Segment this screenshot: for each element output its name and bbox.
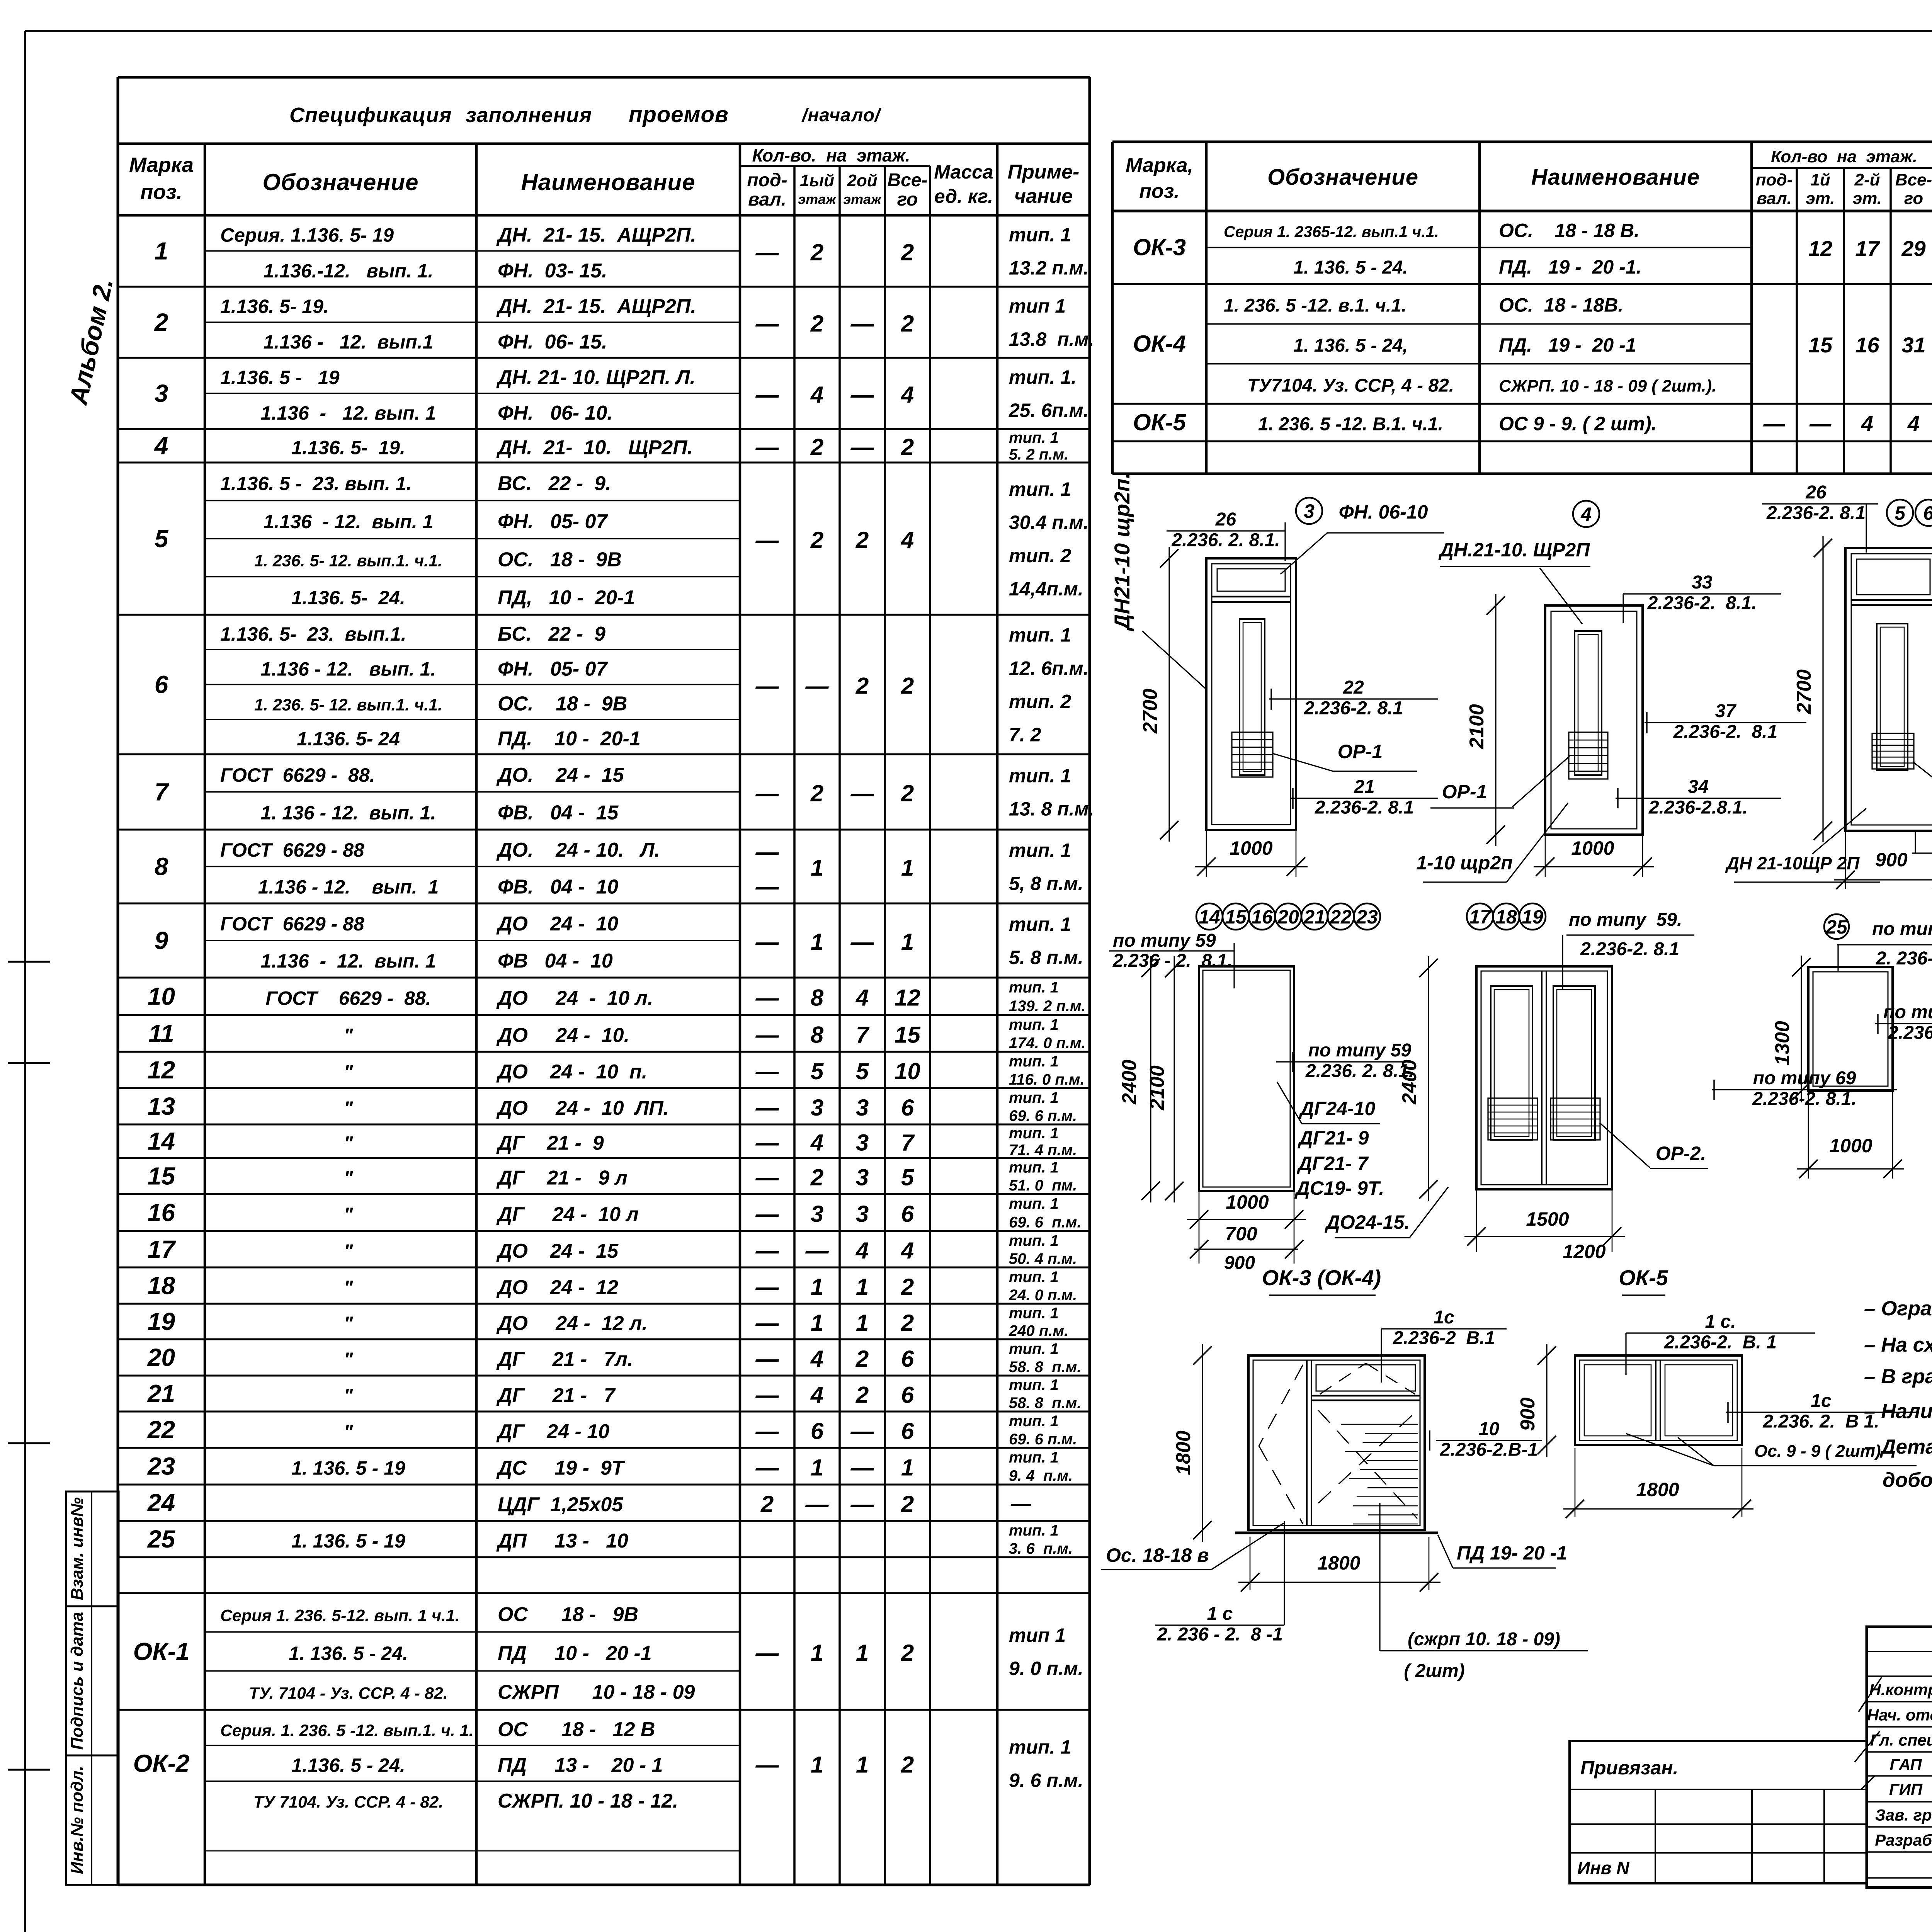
svg-text:ДО 24 - 15: ДО 24 - 15	[496, 1240, 619, 1262]
svg-text:доборного бруса.: доборного бруса.	[1883, 1469, 1932, 1492]
svg-text:1. 236. 5 -12. В.1. ч.1.: 1. 236. 5 -12. В.1. ч.1.	[1258, 414, 1443, 435]
svg-text:1: 1	[811, 1274, 823, 1300]
svg-text:ОС. 18 - 18В.: ОС. 18 - 18В.	[1499, 294, 1623, 316]
svg-text:12: 12	[895, 985, 920, 1011]
label 22 door3	[1269, 698, 1438, 699]
svg-text:4: 4	[154, 432, 168, 460]
svg-text:—: —	[755, 1346, 779, 1372]
dim 1000 w25	[1808, 1091, 1809, 1179]
svg-text:—: —	[755, 839, 779, 865]
svg-text:Зав. гр.: Зав. гр.	[1875, 1806, 1932, 1824]
label po tipu 59 w25	[1875, 1023, 1932, 1024]
svg-text:– Ограждающая решетка для осте: – Ограждающая решетка для остекленных дв…	[1864, 1297, 1932, 1320]
svg-text:—: —	[850, 781, 874, 806]
svg-text:—: —	[805, 673, 829, 699]
svg-text:тип. 1: тип. 1	[1009, 1125, 1059, 1142]
svg-text:ГОСТ 6629 - 88.: ГОСТ 6629 - 88.	[220, 764, 375, 786]
svg-text:тип. 1: тип. 1	[1009, 1736, 1071, 1758]
svg-text:—: —	[850, 434, 874, 460]
label 1s top ok5	[1626, 1332, 1815, 1333]
svg-text:ГИП: ГИП	[1889, 1781, 1923, 1799]
svg-text:1 с.: 1 с.	[1705, 1311, 1736, 1332]
svg-text:1.136 - 12. вып. 1.: 1.136 - 12. вып. 1.	[261, 658, 436, 680]
svg-text:26: 26	[1805, 482, 1827, 503]
svg-text:1.136. 5- 19.: 1.136. 5- 19.	[220, 296, 329, 317]
svg-text:—: —	[755, 1238, 779, 1264]
transom dashes ok3	[1320, 1363, 1366, 1394]
svg-text:по типу 69: по типу 69	[1753, 1068, 1856, 1088]
svg-text:11: 11	[148, 1020, 174, 1048]
svg-text:6: 6	[901, 1095, 914, 1121]
svg-text:6: 6	[155, 671, 168, 699]
dim 1800 h ok3	[1250, 1537, 1251, 1590]
svg-text:—: —	[755, 240, 779, 265]
svg-text:9: 9	[155, 927, 168, 954]
svg-text:ДГ 21 - 7: ДГ 21 - 7	[496, 1384, 616, 1407]
svg-text:1.136 - 12. вып. 1: 1.136 - 12. вып. 1	[261, 950, 436, 972]
svg-text:– Деталь по типу 59. в внутрен: – Деталь по типу 59. в внутренних стенах…	[1864, 1435, 1932, 1458]
svg-text:ДО 24 - 10 л.: ДО 24 - 10 л.	[496, 987, 653, 1010]
svg-text:—: —	[805, 1491, 829, 1517]
svg-text:по типу 59: по типу 59	[1113, 930, 1216, 951]
svg-text:7. 2: 7. 2	[1009, 724, 1041, 746]
door type 4 elevation	[1545, 605, 1643, 835]
svg-text:1: 1	[901, 855, 914, 881]
svg-text:9. 4 п.м.: 9. 4 п.м.	[1009, 1468, 1073, 1485]
svg-text:8: 8	[811, 1022, 824, 1048]
svg-text:21: 21	[1354, 777, 1374, 797]
svg-text:ДГ21- 7: ДГ21- 7	[1297, 1153, 1369, 1174]
svg-text:2.236-2.В-1: 2.236-2.В-1	[1440, 1439, 1538, 1460]
svg-text:2.236-2.8.1.: 2.236-2.8.1.	[1648, 797, 1748, 818]
svg-text:1000: 1000	[1226, 1191, 1269, 1213]
label 34	[1616, 798, 1781, 799]
svg-text:21: 21	[147, 1380, 175, 1408]
svg-text:2: 2	[810, 527, 823, 553]
svg-text:—: —	[755, 1274, 779, 1300]
svg-text:этаж: этаж	[843, 191, 882, 207]
svg-text:ОС. 18 - 9В: ОС. 18 - 9В	[498, 693, 627, 715]
svg-text:5: 5	[901, 1165, 915, 1190]
svg-text:тип 1: тип 1	[1009, 1624, 1066, 1646]
svg-text:– На схемах заполнения проемов: – На схемах заполнения проемов даны разм…	[1864, 1333, 1932, 1356]
svg-text:ДО. 24 - 10. Л.: ДО. 24 - 10. Л.	[496, 839, 660, 861]
svg-text:ТУ 7104. Уз. ССР. 4 - 82.: ТУ 7104. Уз. ССР. 4 - 82.	[253, 1793, 443, 1811]
svg-text:1с: 1с	[1811, 1391, 1831, 1411]
svg-text:тип. 1: тип. 1	[1009, 1377, 1059, 1394]
svg-text:ОК-3 (ОК-4): ОК-3 (ОК-4)	[1262, 1265, 1381, 1290]
svg-text:3: 3	[155, 379, 168, 407]
svg-text:СЖРП. 10 - 18 - 12.: СЖРП. 10 - 18 - 12.	[498, 1790, 678, 1812]
svg-text:1. 136. 5 - 24,: 1. 136. 5 - 24,	[1293, 335, 1408, 356]
svg-text:2: 2	[855, 673, 869, 699]
svg-text:Обозначение: Обозначение	[1267, 165, 1418, 190]
svg-text:ФН. 06- 15.: ФН. 06- 15.	[498, 331, 607, 353]
window 25 elevation	[1808, 967, 1893, 1091]
svg-text:3: 3	[856, 1165, 869, 1190]
svg-text:—: —	[755, 1310, 779, 1336]
svg-text:1000: 1000	[1571, 837, 1614, 859]
dim 1800 v ok3	[1202, 1344, 1203, 1542]
svg-text:2.236-2. 8.1: 2.236-2. 8.1	[1304, 698, 1403, 718]
svg-text:—: —	[1010, 1493, 1031, 1515]
svg-text:—: —	[755, 781, 779, 806]
svg-text:5. 2 п.м.: 5. 2 п.м.	[1009, 446, 1068, 463]
svg-text:ФВ. 04 - 10: ФВ. 04 - 10	[498, 876, 618, 898]
svg-text:22: 22	[147, 1416, 175, 1444]
svg-text:1.136. 5- 19.: 1.136. 5- 19.	[291, 437, 405, 459]
svg-text:2.236-2. 8.1: 2.236-2. 8.1	[1315, 797, 1414, 818]
svg-text:тип. 1: тип. 1	[1009, 913, 1071, 935]
svg-text:тип. 2: тип. 2	[1009, 545, 1071, 566]
svg-text:– В графе примечания даны общи: – В графе примечания даны общие расходы …	[1864, 1365, 1932, 1388]
svg-text:24. 0 п.м.: 24. 0 п.м.	[1009, 1287, 1077, 1304]
svg-text:8: 8	[155, 853, 168, 881]
svg-text:тип. 1: тип. 1	[1009, 1089, 1059, 1106]
svg-text:тип. 1: тип. 1	[1009, 478, 1071, 500]
svg-text:тип. 1: тип. 1	[1009, 429, 1059, 446]
svg-text:2: 2	[855, 1382, 869, 1408]
svg-text:ПД 13 - 20 - 1: ПД 13 - 20 - 1	[498, 1754, 663, 1777]
svg-text:тип. 1: тип. 1	[1009, 1159, 1059, 1176]
blank door 14-23 elevation	[1199, 966, 1294, 1191]
svg-text:1800: 1800	[1636, 1479, 1679, 1500]
svg-text:1.136 - 12. вып. 1: 1.136 - 12. вып. 1	[258, 876, 439, 898]
svg-text:1 с: 1 с	[1207, 1604, 1233, 1624]
svg-text:—: —	[755, 311, 779, 337]
svg-text:ДО 24 - 10 п.: ДО 24 - 10 п.	[496, 1061, 647, 1083]
svg-text:по типу 59: по типу 59	[1308, 1040, 1412, 1061]
svg-text:Н.контр.: Н.контр.	[1869, 1680, 1932, 1699]
svg-text:13. 8 п.м.: 13. 8 п.м.	[1009, 798, 1094, 820]
dim 2700 door 3	[1168, 547, 1170, 842]
svg-text:116. 0 п.м.: 116. 0 п.м.	[1009, 1071, 1085, 1088]
svg-text:2.236. 2. 8.1.: 2.236. 2. 8.1.	[1305, 1061, 1414, 1081]
left panel dashes ok3	[1259, 1365, 1303, 1446]
svg-text:19: 19	[148, 1308, 175, 1335]
svg-text:2100: 2100	[1146, 1065, 1168, 1111]
svg-text:4: 4	[810, 1346, 823, 1372]
dim 2100 door 4	[1495, 594, 1496, 846]
dims 1000 700 900 d14	[1199, 1191, 1200, 1264]
svg-text:тип. 1: тип. 1	[1009, 765, 1071, 787]
svg-text:29: 29	[1901, 236, 1925, 261]
svg-text:ОК-4: ОК-4	[1133, 331, 1186, 357]
svg-text:1: 1	[856, 1640, 869, 1666]
svg-text:тип. 1: тип. 1	[1009, 624, 1071, 646]
svg-text:1800: 1800	[1317, 1552, 1360, 1574]
svg-text:—: —	[755, 1058, 779, 1084]
svg-text:2: 2	[901, 1752, 914, 1778]
svg-text:—: —	[755, 382, 779, 408]
svg-text:22: 22	[1343, 677, 1364, 698]
svg-text:8: 8	[811, 985, 824, 1011]
slash strokes on staff	[1859, 1677, 1882, 1712]
svg-text:—: —	[850, 382, 874, 408]
svg-text:4: 4	[901, 1238, 914, 1264]
svg-text:ДН21-10 щр2п.: ДН21-10 щр2п.	[1110, 473, 1134, 631]
svg-text:ЦДГ 1,25х05: ЦДГ 1,25х05	[498, 1493, 623, 1516]
svg-text:заполнения: заполнения	[466, 104, 592, 127]
label 33	[1623, 593, 1781, 594]
marks 14-23	[1196, 903, 1223, 930]
svg-text:ДН.21-10. ЩР2П: ДН.21-10. ЩР2П	[1438, 539, 1590, 561]
svg-text:2. 236 - 2. 8 -1: 2. 236 - 2. 8 -1	[1156, 1624, 1283, 1645]
svg-text:7: 7	[155, 778, 170, 806]
svg-text:1: 1	[811, 1455, 823, 1481]
title block attachment box	[1570, 1741, 1867, 1883]
label 37	[1645, 722, 1806, 723]
svg-text:71. 4 п.м.: 71. 4 п.м.	[1009, 1142, 1077, 1159]
svg-text:ДН. 21- 15. АЩР2П.: ДН. 21- 15. АЩР2П.	[496, 224, 696, 246]
door 5-6 glazing	[1877, 624, 1908, 770]
svg-text:5: 5	[811, 1058, 824, 1084]
svg-text:1: 1	[811, 929, 823, 955]
fold marks	[8, 961, 50, 963]
svg-text:Обозначение: Обозначение	[262, 169, 418, 195]
door 3 glazing	[1240, 619, 1265, 775]
svg-text:ДН. 21- 10. ЩР2П.: ДН. 21- 10. ЩР2П.	[496, 437, 693, 459]
marks 5 6	[1887, 500, 1913, 526]
svg-text:1. 136. 5 - 24.: 1. 136. 5 - 24.	[1293, 257, 1408, 278]
svg-text:2400: 2400	[1398, 1060, 1421, 1105]
svg-text:ДО 24 - 10: ДО 24 - 10	[496, 913, 618, 935]
svg-text:4: 4	[855, 985, 869, 1011]
svg-text:1.136.-12. вып. 1.: 1.136.-12. вып. 1.	[264, 260, 434, 282]
svg-text:1. 136. 5 - 24.: 1. 136. 5 - 24.	[289, 1643, 408, 1664]
svg-text:2: 2	[901, 673, 914, 699]
svg-text:3: 3	[856, 1130, 869, 1156]
svg-text:4: 4	[901, 527, 914, 553]
svg-text:ФН. 06- 10.: ФН. 06- 10.	[498, 402, 613, 424]
svg-text:1.136 - 12. вып. 1: 1.136 - 12. вып. 1	[261, 402, 436, 424]
svg-text:по типу 59: по типу 59	[1883, 1002, 1932, 1022]
label 1s right ok5	[1726, 1412, 1917, 1413]
label szhrp ok3	[1379, 1503, 1380, 1651]
svg-text:15: 15	[895, 1022, 921, 1048]
svg-text:2: 2	[810, 1165, 823, 1190]
svg-text:2: 2	[810, 434, 823, 460]
svg-text:69. 6 п.м.: 69. 6 п.м.	[1009, 1107, 1077, 1124]
dim 1500 1200 d17	[1476, 1189, 1477, 1252]
svg-text:26: 26	[1215, 509, 1236, 530]
svg-text:2.236-2. 8.1: 2.236-2. 8.1	[1673, 721, 1778, 742]
svg-text:( 2шт): ( 2шт)	[1404, 1661, 1464, 1681]
svg-text:2: 2	[810, 240, 823, 265]
dim 1300 w25	[1801, 956, 1802, 1102]
svg-text:2: 2	[901, 1274, 914, 1300]
svg-text:Ос. 18-18 в: Ос. 18-18 в	[1106, 1544, 1209, 1566]
svg-text:18: 18	[1495, 906, 1517, 928]
label po tipu 59 right d14	[1276, 1061, 1409, 1062]
grille OP-1 door3	[1232, 732, 1273, 777]
svg-text:ДГ24-10: ДГ24-10	[1299, 1098, 1376, 1119]
svg-text:тип 1: тип 1	[1009, 295, 1066, 317]
svg-text:Альбом 2.: Альбом 2.	[63, 276, 118, 407]
marks 17 18 19	[1467, 903, 1493, 930]
svg-text:под-: под-	[1756, 170, 1793, 189]
svg-text:": "	[344, 1277, 354, 1298]
mark 3	[1296, 498, 1322, 524]
svg-text:поз.: поз.	[140, 180, 182, 204]
svg-text:9. 6 п.м.: 9. 6 п.м.	[1009, 1770, 1083, 1791]
svg-text:ДО 24 - 10.: ДО 24 - 10.	[496, 1024, 629, 1047]
svg-text:4: 4	[1580, 503, 1592, 525]
svg-text:тип. 1: тип. 1	[1009, 224, 1071, 246]
svg-text:Спецификация: Спецификация	[289, 104, 452, 127]
svg-text:4: 4	[901, 382, 914, 408]
svg-text:2.236. 2. 8.1.: 2.236. 2. 8.1.	[1171, 530, 1280, 550]
svg-text:1: 1	[856, 1310, 869, 1336]
label po tipu 69	[1712, 1089, 1897, 1090]
svg-text:2.236 - 2. 8.1.: 2.236 - 2. 8.1.	[1112, 951, 1233, 971]
svg-text:—: —	[755, 1022, 779, 1048]
svg-text:ФН. 05- 07: ФН. 05- 07	[498, 658, 608, 680]
svg-text:10: 10	[895, 1058, 920, 1084]
svg-text:ГОСТ 6629 - 88: ГОСТ 6629 - 88	[220, 839, 364, 861]
label 21 door5-6	[1912, 852, 1932, 854]
svg-text:6: 6	[901, 1382, 914, 1408]
dim 900 door5-6	[1845, 831, 1846, 889]
svg-text:5: 5	[155, 525, 169, 553]
svg-text:17: 17	[1855, 236, 1880, 261]
svg-text:ДО 24 - 12: ДО 24 - 12	[496, 1276, 618, 1299]
svg-text:ОС. 18 - 9В: ОС. 18 - 9В	[498, 548, 622, 571]
svg-text:1.136. 5 - 23. вып. 1.: 1.136. 5 - 23. вып. 1.	[220, 473, 412, 494]
svg-text:2: 2	[901, 434, 914, 460]
svg-text:—: —	[850, 1491, 874, 1517]
svg-text:": "	[344, 1240, 354, 1262]
svg-text:—: —	[755, 1201, 779, 1227]
svg-text:2: 2	[901, 1491, 914, 1517]
dim 1800 ok5	[1575, 1448, 1576, 1517]
svg-text:1.136. 5 - 19: 1.136. 5 - 19	[220, 367, 340, 388]
svg-text:174. 0 п.м.: 174. 0 п.м.	[1009, 1035, 1086, 1052]
svg-text:14: 14	[1199, 906, 1220, 928]
svg-text:1200: 1200	[1563, 1241, 1605, 1262]
svg-text:—: —	[755, 434, 779, 460]
svg-text:—: —	[755, 673, 779, 699]
svg-text:ДГ 21 - 9: ДГ 21 - 9	[496, 1132, 604, 1155]
svg-text:(сжрп 10. 18 - 09): (сжрп 10. 18 - 09)	[1408, 1629, 1560, 1650]
svg-text:23: 23	[1356, 906, 1378, 928]
svg-text:1. 236. 5 -12. в.1. ч.1.: 1. 236. 5 -12. в.1. ч.1.	[1224, 296, 1406, 316]
svg-text:ПД, 10 - 20-1: ПД, 10 - 20-1	[498, 587, 635, 609]
svg-text:4: 4	[1861, 412, 1873, 436]
svg-text:ФН. 03- 15.: ФН. 03- 15.	[498, 260, 607, 282]
svg-text:3. 6 п.м.: 3. 6 п.м.	[1009, 1540, 1073, 1557]
svg-text:Марка: Марка	[129, 153, 194, 177]
svg-text:ПД. 19 - 20 -1.: ПД. 19 - 20 -1.	[1499, 256, 1641, 278]
dim 2400 d17	[1428, 956, 1429, 1201]
svg-text:эт.: эт.	[1853, 189, 1882, 208]
svg-text:ДП 13 - 10: ДП 13 - 10	[496, 1530, 628, 1552]
svg-text:2.236. 2. В 1.: 2.236. 2. В 1.	[1762, 1411, 1879, 1432]
svg-text:16: 16	[1855, 333, 1879, 357]
svg-text:2: 2	[810, 781, 823, 806]
svg-text:1: 1	[811, 1752, 823, 1778]
svg-text:тип. 1: тип. 1	[1009, 1195, 1059, 1212]
svg-text:Гл. спец.: Гл. спец.	[1870, 1731, 1932, 1749]
svg-text:10: 10	[1479, 1419, 1500, 1439]
svg-text:—: —	[1763, 412, 1786, 436]
svg-text:240 п.м.: 240 п.м.	[1009, 1322, 1068, 1339]
window OK-3 elevation	[1248, 1355, 1425, 1530]
svg-text:ДГ 24 - 10: ДГ 24 - 10	[496, 1420, 609, 1443]
svg-text:1ый: 1ый	[800, 171, 834, 190]
svg-text:69. 6 п.м.: 69. 6 п.м.	[1009, 1431, 1077, 1448]
svg-text:Марка,: Марка,	[1126, 154, 1193, 177]
svg-text:ДГ 21 - 7л.: ДГ 21 - 7л.	[496, 1348, 633, 1371]
svg-text:—: —	[850, 311, 874, 337]
svg-text:4: 4	[810, 382, 823, 408]
svg-text:/начало/: /начало/	[801, 105, 882, 126]
svg-text:вал.: вал.	[1757, 189, 1792, 208]
svg-text:24: 24	[147, 1489, 175, 1517]
svg-text:1.136 - 12. вып. 1: 1.136 - 12. вып. 1	[264, 511, 434, 532]
svg-text:Нач. отд.: Нач. отд.	[1867, 1706, 1932, 1724]
svg-text:—: —	[755, 1418, 779, 1444]
svg-text:Приме-: Приме-	[1008, 161, 1080, 183]
svg-text:2700: 2700	[1139, 689, 1162, 734]
svg-text:тип. 1: тип. 1	[1009, 1269, 1059, 1286]
svg-text:": "	[344, 1313, 354, 1334]
svg-text:13: 13	[148, 1092, 175, 1120]
grille OP-1 door5-6	[1872, 733, 1914, 769]
svg-text:3: 3	[856, 1201, 869, 1227]
svg-text:20: 20	[147, 1344, 175, 1371]
svg-text:1.136. 5 - 24.: 1.136. 5 - 24.	[291, 1755, 405, 1776]
svg-text:12. 6п.м.: 12. 6п.м.	[1009, 658, 1089, 679]
svg-text:Серия 1. 236. 5-12. вып. 1 ч.1: Серия 1. 236. 5-12. вып. 1 ч.1.	[220, 1606, 460, 1625]
svg-text:": "	[344, 1204, 354, 1225]
svg-text:ПД. 19 - 20 -1: ПД. 19 - 20 -1	[1499, 334, 1636, 356]
left table rows	[205, 250, 740, 252]
svg-text:1.136. 5- 24: 1.136. 5- 24	[297, 728, 400, 750]
svg-text:58. 8 п.м.: 58. 8 п.м.	[1009, 1359, 1081, 1376]
svg-text:Привязан.: Привязан.	[1580, 1757, 1678, 1779]
svg-text:33: 33	[1692, 572, 1713, 593]
svg-text:4: 4	[855, 1238, 869, 1264]
svg-text:900: 900	[1517, 1398, 1539, 1431]
label 10 ok3	[1436, 1440, 1542, 1441]
svg-text:ДН 21-10ЩР 2П: ДН 21-10ЩР 2П	[1725, 853, 1860, 873]
dim 1000 door3	[1206, 830, 1207, 877]
svg-text:проемов: проемов	[629, 102, 729, 127]
svg-text:12: 12	[148, 1056, 175, 1084]
svg-text:эт.: эт.	[1806, 189, 1835, 208]
svg-text:1-10 щр2п: 1-10 щр2п	[1416, 852, 1513, 874]
svg-text:": "	[344, 1349, 354, 1370]
double door 17-19 elevation	[1476, 966, 1612, 1189]
svg-text:": "	[344, 1061, 354, 1083]
svg-text:Разраб.: Разраб.	[1875, 1831, 1932, 1849]
door 4 glazing	[1575, 631, 1602, 775]
svg-text:1. 236. 5- 12. вып.1. ч.1.: 1. 236. 5- 12. вып.1. ч.1.	[254, 696, 442, 714]
svg-text:по типу 59.: по типу 59.	[1569, 910, 1682, 930]
svg-text:ДО 24 - 12 л.: ДО 24 - 12 л.	[496, 1312, 648, 1335]
svg-text:1й: 1й	[1810, 170, 1830, 189]
svg-text:ОК-2: ОК-2	[133, 1750, 189, 1777]
svg-text:тип. 1: тип. 1	[1009, 979, 1059, 996]
svg-text:ОР-2.: ОР-2.	[1656, 1143, 1706, 1164]
dim 1000 door4	[1545, 835, 1546, 877]
label 1s bottom-left ok3	[1284, 1521, 1285, 1625]
svg-text:2400: 2400	[1118, 1060, 1141, 1105]
svg-text:139. 2 п.м.: 139. 2 п.м.	[1009, 998, 1086, 1015]
svg-text:Наименование: Наименование	[521, 169, 695, 195]
svg-text:1000: 1000	[1829, 1135, 1872, 1156]
